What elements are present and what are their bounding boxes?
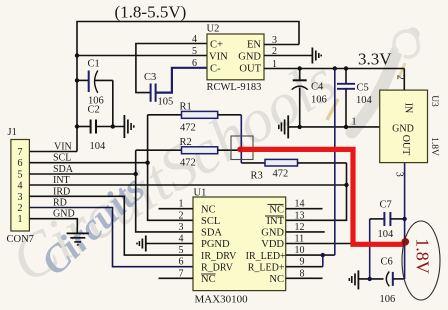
wire INT net [29,184,346,186]
node VIN rail taps [75,53,79,57]
wire R1 right drop [240,115,242,163]
IC U3 regulator [380,90,439,163]
wire: U2 pin5 VIN [77,55,207,57]
svg-text:R2: R2 [180,137,192,148]
wire GND net [29,219,77,233]
svg-text:U2: U2 [207,24,220,35]
wire 1.8V highlighted net (red) [239,149,403,244]
svg-text:472: 472 [180,123,196,134]
watermark big grey script [0,31,418,296]
svg-text:MAX30100: MAX30100 [195,294,249,306]
svg-text:RCWL-9183: RCWL-9183 [207,82,262,93]
svg-text:IR_LED+: IR_LED+ [246,251,286,262]
svg-text:472: 472 [273,169,289,180]
svg-text:NC: NC [269,274,284,285]
resistor R2 [136,137,240,169]
svg-text:EN: EN [247,39,261,50]
wire RD net [29,208,193,267]
svg-text:INT: INT [267,216,285,227]
svg-text:1: 1 [352,117,357,128]
wire U2 pin2 GND [264,55,312,57]
wire: U2 pin6 C- [156,68,207,93]
capacitor C6 [359,257,405,306]
svg-text:IN: IN [403,103,414,114]
svg-text:104: 104 [356,95,373,106]
watermark pencil accents [327,63,405,120]
wire: U2 pin4 C+ [136,44,207,93]
callout box [231,136,253,160]
capacitor C7 [370,200,405,279]
wire 3.3V drop to LED pins [334,69,336,256]
svg-text:OUT: OUT [400,135,411,156]
U3 pin2 wire [403,69,405,91]
wire U1 pin4 PGND [146,243,193,245]
capacitor C1 [77,59,113,107]
svg-text:R_DRV: R_DRV [201,262,234,273]
resistor R1 [148,102,242,134]
svg-text:C+: C+ [210,39,223,50]
svg-text:3: 3 [179,222,184,233]
svg-text:U3: U3 [429,95,439,107]
wire SCL net [29,162,147,164]
svg-text:GND: GND [238,51,261,62]
svg-text:104: 104 [90,141,107,152]
wire U2 pin3 EN stub [264,44,299,46]
svg-text:VDD: VDD [261,239,284,250]
wire analog ground line [288,126,379,128]
svg-text:5: 5 [192,46,197,57]
svg-text:1.8V: 1.8V [429,137,439,156]
ground (U2 pin2) [312,48,321,64]
wire: J1 VIN row [29,151,77,153]
svg-text:GND: GND [261,228,284,239]
svg-text:R3: R3 [251,171,263,182]
svg-text:3.3V: 3.3V [358,50,392,69]
svg-text:6: 6 [18,158,23,169]
svg-text:13: 13 [295,210,305,221]
svg-text:GND: GND [392,123,414,134]
watermark Circuits script [33,168,153,284]
svg-text:U1: U1 [194,188,207,199]
svg-text:7: 7 [18,147,23,158]
J1 row labels [53,142,75,220]
connector J1 CON7 [7,127,34,245]
svg-text:5: 5 [179,245,184,256]
U1 interior labels [201,204,286,285]
svg-text:105: 105 [158,97,174,108]
IC U1 MAX30100 [193,188,286,306]
svg-text:106: 106 [380,294,396,305]
svg-text:C3: C3 [144,72,156,83]
ground (PGND) [137,236,146,252]
svg-text:1.8V: 1.8V [413,238,433,274]
IC U2 RCWL-9183 [207,24,265,94]
svg-text:C2: C2 [88,105,100,116]
svg-text:J1: J1 [8,127,17,138]
svg-text:VIN: VIN [54,142,72,153]
svg-text:(1.8-5.5V): (1.8-5.5V) [115,3,187,22]
wire: VIN top rail [77,22,299,152]
svg-text:3: 3 [18,192,23,203]
node red tip [402,238,410,246]
ground (right of C2) [124,115,133,138]
wire pin9-pin10 tie [322,255,324,267]
svg-text:3: 3 [394,172,405,177]
svg-text:4: 4 [18,181,23,192]
svg-text:C4: C4 [311,82,324,93]
wire R3/INT drop to U1 pin13 [286,163,347,220]
U1 left stubs pin1 pin7 [159,208,194,210]
svg-text:PGND: PGND [201,239,230,250]
capacitor C4 [292,69,327,127]
svg-text:SCL: SCL [201,216,220,227]
capacitor C2 [77,105,124,153]
svg-text:4: 4 [192,34,197,45]
wire 3.3V rail (U2 OUT to U3 IN) [264,68,404,70]
svg-text:C5: C5 [357,83,369,94]
svg-text:C-: C- [210,64,221,75]
wire IRD net [29,196,193,255]
wire SDA net [29,173,135,175]
node C2 tie [111,124,115,128]
capacitor C5 [337,69,373,127]
svg-text:NC: NC [201,204,216,215]
ground (C6) [349,270,358,289]
wire C1/C2 right tie [112,80,114,126]
svg-text:5: 5 [18,170,23,181]
svg-text:472: 472 [180,158,196,169]
svg-text:OUT: OUT [239,64,261,75]
capacitor C3 [144,72,173,108]
svg-text:SDA: SDA [201,228,222,239]
svg-text:6: 6 [179,257,184,268]
U1 right stubs [286,208,323,210]
svg-text:C7: C7 [380,200,392,211]
svg-text:2: 2 [18,203,23,214]
svg-text:106: 106 [311,95,327,106]
ground (left of C4) [279,115,288,138]
svg-text:NC: NC [269,204,284,215]
ground (below J1) [67,233,89,245]
svg-text:NC: NC [201,274,216,285]
annotation ellipse 1.8V [402,221,440,300]
svg-text:1: 1 [18,214,23,225]
svg-text:R1: R1 [180,102,192,113]
svg-text:C1: C1 [88,59,100,70]
svg-text:CON7: CON7 [7,234,34,245]
U1 pin numbers [179,199,305,280]
node red start [237,147,243,153]
U2 pin numbers [192,34,277,70]
svg-text:2: 2 [179,210,184,221]
U3 pin3 OUT wire down [404,163,406,279]
svg-text:6: 6 [192,58,197,69]
svg-text:IR_DRV: IR_DRV [201,251,237,262]
svg-text:2: 2 [395,75,406,80]
svg-text:R_LED+: R_LED+ [248,262,285,273]
node rail taps [298,66,302,70]
svg-text:104: 104 [378,229,395,240]
svg-text:VIN: VIN [209,51,228,62]
svg-text:C6: C6 [381,257,393,268]
resistor R3 [241,159,346,181]
